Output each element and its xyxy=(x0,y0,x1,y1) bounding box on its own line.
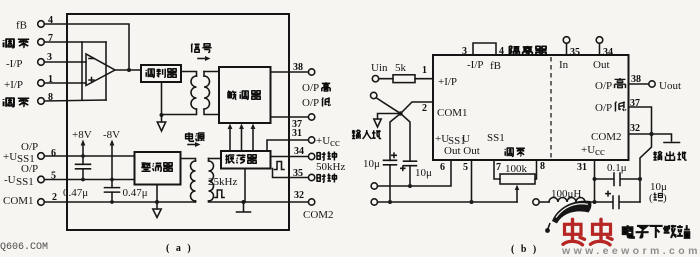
node op-amp output / fB junction xyxy=(127,68,131,72)
svg-text:100μH: 100μH xyxy=(551,188,581,200)
wire rectifier common stub xyxy=(156,185,158,203)
node signal common xyxy=(160,113,164,117)
oscillator drive arrows to demodulator xyxy=(229,128,231,151)
wire COM2 pin 32 to output ground xyxy=(629,134,672,141)
demodulator box 解调器 xyxy=(219,67,271,123)
capacitor C6 10u tantalum xyxy=(595,201,613,203)
clock waveform symbol xyxy=(275,162,285,170)
svg-text:5: 5 xyxy=(463,162,468,173)
svg-text:+I/P: +I/P xyxy=(438,76,457,88)
terminal clock pin 34 xyxy=(308,153,314,159)
svg-text:O/P: O/P xyxy=(595,80,612,92)
svg-text:Q606.COM: Q606.COM xyxy=(0,242,48,253)
terminal -Uss rail xyxy=(371,199,377,205)
isolated common arrow (signal side) xyxy=(161,115,163,122)
terminal +Uss1 pin 6 xyxy=(38,153,45,160)
svg-text:0.47μ: 0.47μ xyxy=(63,187,88,199)
svg-text:35: 35 xyxy=(293,168,303,179)
label 输入地 (input ground) xyxy=(352,130,361,139)
label 隔离器 (isolator) xyxy=(509,46,519,55)
svg-text:100k: 100k xyxy=(505,163,528,175)
svg-text:COM2: COM2 xyxy=(591,131,622,143)
internal barrier dashed line xyxy=(550,57,552,160)
svg-text:U: U xyxy=(462,133,470,145)
svg-text:O/P: O/P xyxy=(21,163,38,175)
svg-text:cc: cc xyxy=(330,137,340,149)
svg-text:COM1: COM1 xyxy=(3,195,34,207)
rectifier box 整流器 xyxy=(135,152,181,185)
capacitor C5 0.1u xyxy=(595,178,614,180)
ground symbol (b output) xyxy=(664,142,680,144)
svg-text:Uout: Uout xyxy=(659,80,681,92)
svg-text:Uin: Uin xyxy=(371,62,388,74)
+8V supply arrow xyxy=(82,145,84,157)
wire +Uss rail to pin 6 xyxy=(378,160,452,186)
wire demod to pin 38 xyxy=(271,71,309,73)
resistor R1 5k xyxy=(379,78,393,80)
svg-text:8: 8 xyxy=(540,161,545,172)
svg-text:50kHz: 50kHz xyxy=(316,161,345,173)
svg-text:O/P: O/P xyxy=(595,102,612,114)
pot wiper arrow xyxy=(516,189,518,202)
svg-text:-I/P: -I/P xyxy=(467,59,484,71)
label 输出地 (output ground) xyxy=(653,151,662,160)
wire output common vertical xyxy=(640,134,652,202)
node input common xyxy=(398,111,402,115)
terminal clock pin 35 xyxy=(308,174,314,180)
svg-text:www.eeworm.com: www.eeworm.com xyxy=(561,245,700,257)
terminal -I/P pin 3 xyxy=(38,59,45,66)
svg-text:1: 1 xyxy=(422,65,427,76)
terminal +Ucc pin 31 xyxy=(308,137,314,143)
svg-text:Out: Out xyxy=(593,59,610,71)
wire clock pin 34 xyxy=(271,156,309,158)
terminal O/P LO pin 37 xyxy=(308,114,314,120)
wire terminal to common node xyxy=(376,98,401,114)
capacitor C2 0.47u xyxy=(105,188,120,193)
svg-text:Out Out: Out Out xyxy=(444,145,480,157)
terminal -Uss1 pin 5 xyxy=(38,176,45,183)
wire trim 8 xyxy=(44,100,106,101)
svg-text:cc: cc xyxy=(595,146,605,158)
svg-text:6: 6 xyxy=(440,162,445,173)
svg-text:+I/P: +I/P xyxy=(4,79,23,91)
svg-text:31: 31 xyxy=(292,128,302,139)
label 调零 (zero trim) xyxy=(505,148,513,156)
svg-text:4: 4 xyxy=(499,46,504,57)
terminal COM1 pin 2 xyxy=(38,199,45,206)
svg-text:6: 6 xyxy=(51,148,56,159)
transformer T2 primary (rectifier side) xyxy=(181,159,196,162)
svg-text:0.1μ: 0.1μ xyxy=(607,162,627,174)
wire R1 to +I/P pin 1 xyxy=(415,78,433,80)
capacitor C3 10u electrolytic xyxy=(390,114,401,161)
potentiometer R2 100k xyxy=(494,160,500,179)
terminal fB pin 4 xyxy=(38,21,45,28)
svg-text:38: 38 xyxy=(631,74,641,85)
svg-text:O/P: O/P xyxy=(302,97,319,109)
node power common xyxy=(155,200,159,204)
wire -Uss1 rail xyxy=(44,179,134,181)
svg-text:SS1: SS1 xyxy=(487,132,505,144)
svg-text:(: ( xyxy=(649,192,653,204)
label 电源 (power) xyxy=(186,132,194,141)
terminal O/P HI pin 38 xyxy=(308,69,314,75)
wire +Ucc pin 31 to oscillator xyxy=(267,140,308,151)
svg-text:In: In xyxy=(559,59,569,71)
svg-text:38: 38 xyxy=(293,62,303,73)
svg-text:O/P: O/P xyxy=(21,141,38,153)
power direction arrow xyxy=(188,144,196,146)
svg-text:7: 7 xyxy=(496,162,501,173)
isolated input common arrow xyxy=(378,114,401,120)
IC outer box U1 (AD202 block diagram) xyxy=(67,14,289,230)
svg-text:-I/P: -I/P xyxy=(6,58,23,70)
-8V supply arrow xyxy=(111,145,113,180)
terminal In pin 35 xyxy=(563,37,570,44)
terminal input common xyxy=(371,92,377,98)
svg-text:+8V: +8V xyxy=(72,129,92,141)
node oscillator common xyxy=(242,200,246,204)
inductor L1 100uH xyxy=(533,199,539,205)
svg-text:10μ: 10μ xyxy=(415,167,432,179)
wire -Uss rail to pin 5 and pot wiper xyxy=(378,201,518,203)
svg-text:-8V: -8V xyxy=(103,129,120,141)
wire demod to pin 37 xyxy=(271,116,309,118)
svg-text:34: 34 xyxy=(603,47,613,58)
wire O/P high pin 38 to Uout xyxy=(629,83,649,85)
svg-text:31: 31 xyxy=(577,162,587,173)
wire modulator bottom to signal common xyxy=(161,82,163,115)
terminal COM2 pin 32 xyxy=(308,199,314,205)
svg-text:SS1: SS1 xyxy=(16,176,34,188)
svg-text:): ) xyxy=(663,192,667,204)
wire pin 5 stub xyxy=(471,160,473,202)
wire -I/P to op-amp xyxy=(44,61,86,63)
transformer T1 primary lead xyxy=(181,72,197,77)
transformer T1 secondary winding xyxy=(204,76,210,109)
eeworm logo text 电子下载站 xyxy=(623,225,690,238)
svg-text:COM1: COM1 xyxy=(437,107,468,119)
wire trim 7 xyxy=(44,41,106,43)
signal direction arrow xyxy=(198,58,206,60)
svg-text:2: 2 xyxy=(422,103,427,114)
svg-text:COM2: COM2 xyxy=(303,209,334,221)
source Uin terminal xyxy=(372,76,378,82)
svg-text:+U: +U xyxy=(581,144,595,156)
svg-text:32: 32 xyxy=(630,123,640,134)
svg-text:+U: +U xyxy=(316,135,330,147)
label 信号 (signal) xyxy=(191,44,199,53)
capacitor C1 0.47u xyxy=(76,164,91,169)
svg-text:( a ): ( a ) xyxy=(166,243,193,254)
terminal +Uss rail xyxy=(371,183,377,189)
wire common node to COM1 pin 2 xyxy=(401,102,434,114)
wire +Uss1 rail xyxy=(44,155,134,157)
wire clock pin 35 xyxy=(273,169,309,178)
modulator box 调制器 xyxy=(141,65,181,82)
svg-text:25kHz: 25kHz xyxy=(208,176,237,188)
svg-text:34: 34 xyxy=(294,146,304,157)
svg-text:37: 37 xyxy=(630,98,640,109)
terminal Out pin 34 xyxy=(596,37,603,44)
ground symbol (a) xyxy=(243,202,245,212)
svg-text:5k: 5k xyxy=(395,62,407,74)
eeworm logo 虫虫 red xyxy=(563,219,612,245)
wire O/P low pin 37 xyxy=(629,107,652,134)
svg-text:35: 35 xyxy=(570,47,580,58)
wire op-amp output to modulator xyxy=(115,69,141,71)
trim network box around op-amp xyxy=(81,42,83,100)
svg-text:0.47μ: 0.47μ xyxy=(123,187,148,199)
svg-text:10μ: 10μ xyxy=(363,158,380,170)
wire +Ucc pin 31 stub xyxy=(594,160,596,202)
svg-text:O/P: O/P xyxy=(302,82,319,94)
svg-text:fB: fB xyxy=(16,20,27,32)
isolated common arrow (power side) xyxy=(156,202,158,209)
wire fB to op-amp output node xyxy=(44,24,129,70)
svg-text:+U: +U xyxy=(3,151,17,163)
svg-text:3: 3 xyxy=(462,46,467,57)
op-amp U2 xyxy=(86,54,115,86)
transformer T2 secondary (oscillator side) xyxy=(209,161,214,201)
capacitor C4 10u electrolytic xyxy=(401,114,411,162)
wire oscillator common stub xyxy=(244,169,246,203)
oscillator box 振荡器 xyxy=(221,151,271,169)
transformer T1 primary winding xyxy=(191,76,197,109)
eeworm logo wing xyxy=(552,201,591,224)
svg-text:32: 32 xyxy=(294,190,304,201)
svg-text:fB: fB xyxy=(490,60,501,72)
IC box U3 isolation amplifier xyxy=(433,55,629,160)
terminal trim pin 7 xyxy=(38,39,45,46)
wire COM2 pin 32 xyxy=(244,201,309,203)
svg-text:( b ): ( b ) xyxy=(511,244,538,255)
feedback jumper pins 3-4 xyxy=(473,43,496,55)
wire COM1 rail xyxy=(44,201,195,203)
svg-text:-U: -U xyxy=(4,174,16,186)
wire +I/P to op-amp xyxy=(44,82,86,84)
terminal +I/P pin 1 xyxy=(38,80,45,87)
terminal trim pin 8 xyxy=(38,98,45,105)
